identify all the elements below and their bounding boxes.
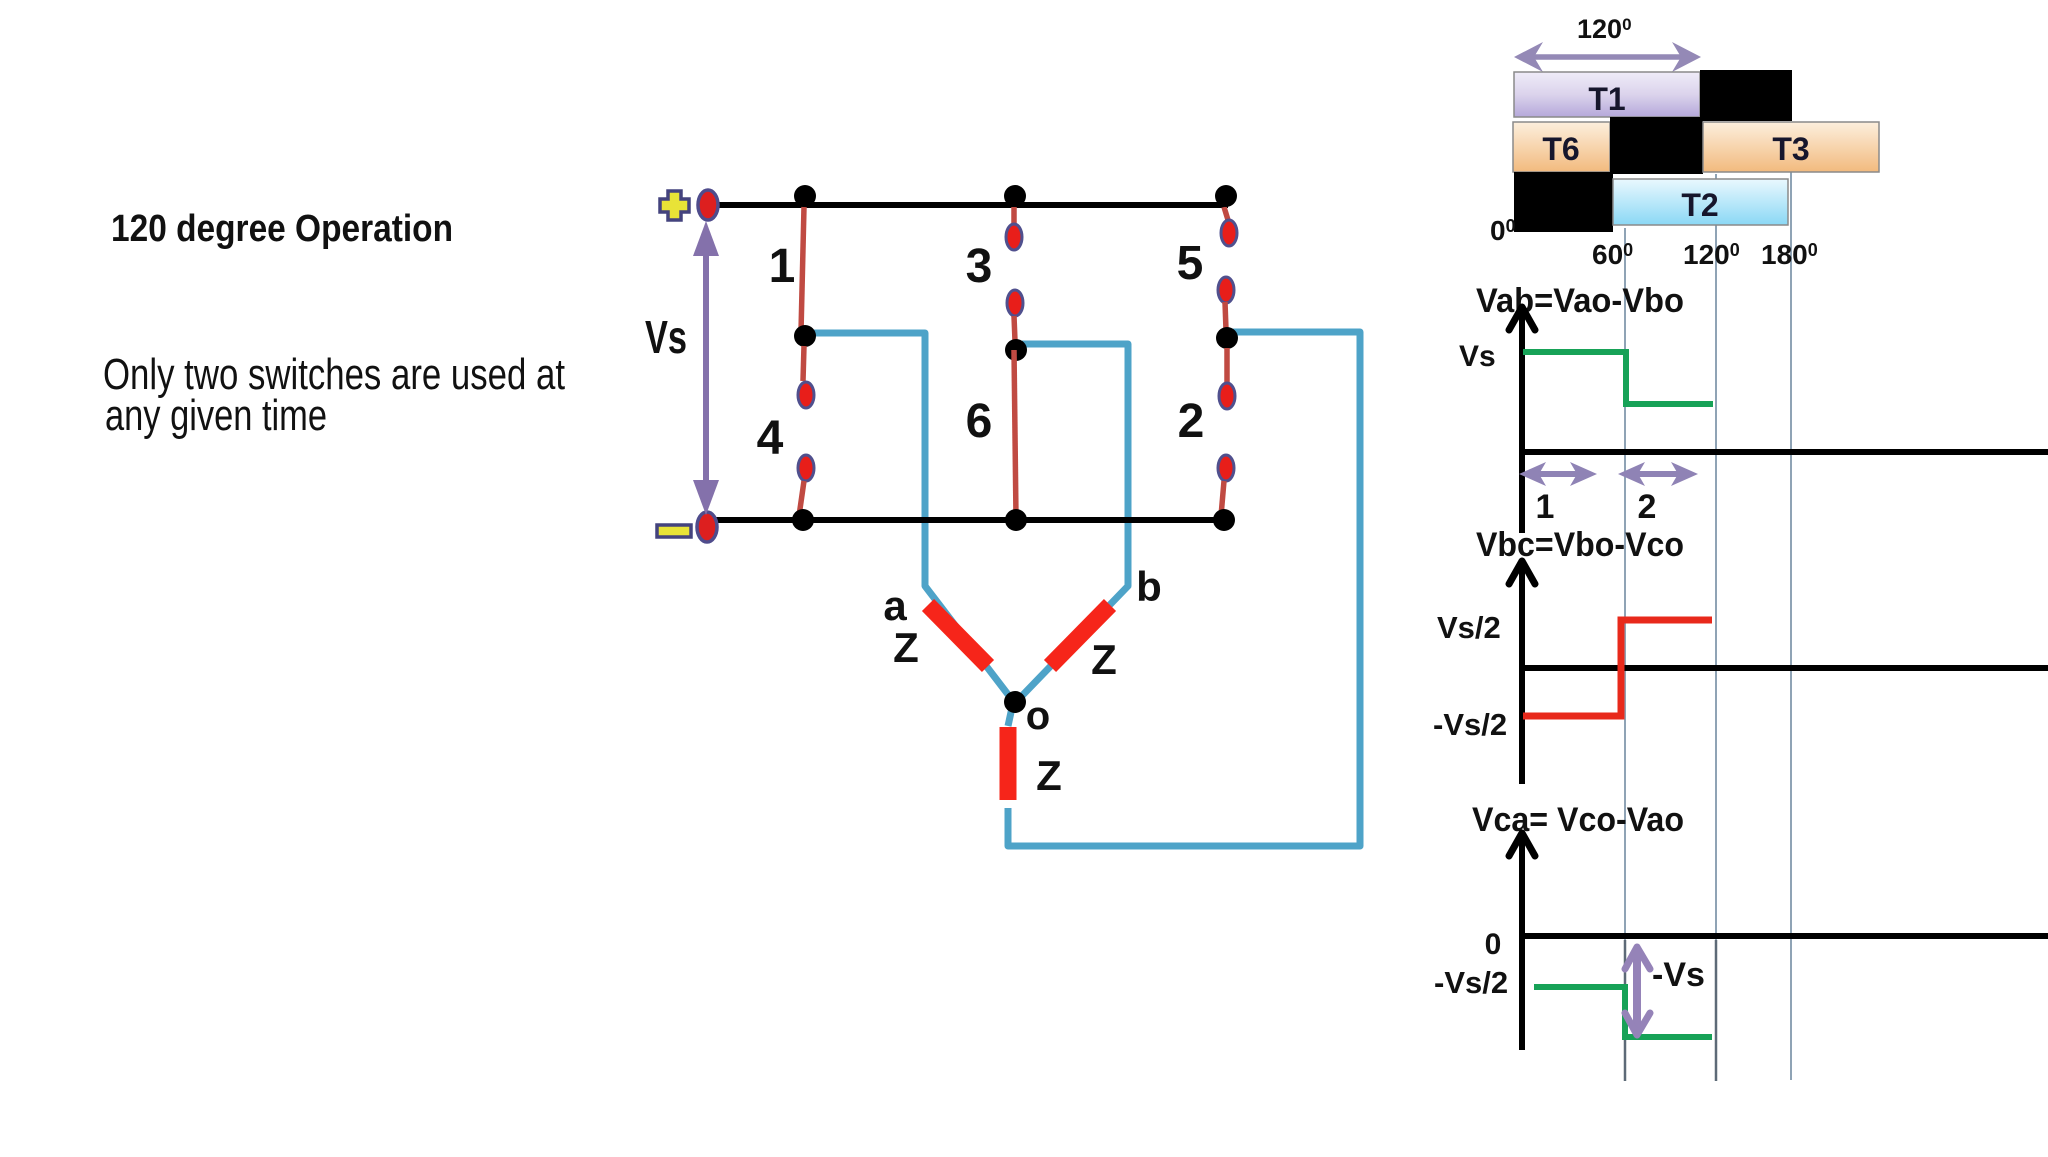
switch S4 stub to bottom bus: [799, 481, 804, 516]
svg-text:-Vs/2: -Vs/2: [1433, 707, 1507, 742]
graph3 y axis: [1509, 833, 1535, 1050]
svg-text:Z: Z: [893, 624, 919, 671]
block T6: [1513, 122, 1610, 172]
node mid leg B: [1005, 339, 1027, 361]
svg-text:Z: Z: [1091, 636, 1117, 683]
switch S2 stub to bottom bus: [1221, 481, 1224, 516]
svg-text:T2: T2: [1681, 187, 1718, 223]
contact oval S2 upper: [1219, 383, 1235, 409]
node bottom bus leg A: [792, 509, 814, 531]
graph1 interval arrow 2: [1618, 462, 1698, 486]
svg-text:3: 3: [966, 240, 993, 293]
wire phase b (blue): [1017, 344, 1128, 701]
svg-text:600: 600: [1592, 239, 1633, 270]
svg-text:-Vs: -Vs: [1652, 956, 1705, 994]
svg-text:Vs: Vs: [645, 311, 687, 363]
graph1 x axis: [1519, 449, 2048, 455]
node bottom bus leg C: [1213, 509, 1235, 531]
svg-text:Vca= Vco-Vao: Vca= Vco-Vao: [1472, 801, 1684, 839]
svg-text:0: 0: [1485, 928, 1502, 961]
gridline at 120deg: [1715, 174, 1717, 1081]
svg-text:1: 1: [769, 240, 796, 293]
120 deg span arrow: [1514, 42, 1701, 72]
black block row3: [1514, 172, 1613, 232]
contact oval S4 upper: [798, 382, 814, 408]
wire phase a (blue): [812, 333, 1013, 701]
svg-text:6: 6: [966, 395, 993, 448]
svg-text:T6: T6: [1542, 131, 1579, 167]
svg-text:1200: 1200: [1683, 239, 1740, 270]
switch S5 stub from top bus: [1224, 207, 1228, 220]
graph1 interval arrow 1: [1519, 462, 1597, 486]
black block row1: [1700, 70, 1792, 121]
wire bottom bus: [710, 517, 1228, 523]
svg-text:5: 5: [1177, 237, 1204, 290]
block T1: [1514, 72, 1700, 117]
switch S6 (closed): [1014, 350, 1016, 518]
graph3 green trace: [1534, 987, 1712, 1037]
svg-text:Vs/2: Vs/2: [1437, 610, 1501, 645]
node top bus leg B: [1004, 185, 1026, 207]
impedance Z phase b: [1050, 605, 1110, 666]
contact oval S5 upper: [1221, 220, 1237, 246]
svg-text:T3: T3: [1772, 131, 1809, 167]
switch S3 stub to mid node: [1014, 316, 1015, 341]
graph3 -Vs arrow: [1625, 947, 1650, 1035]
terminal plus symbol: [660, 191, 689, 220]
graph3 x axis: [1519, 933, 2048, 939]
svg-text:00: 00: [1490, 215, 1516, 246]
node mid leg C: [1216, 327, 1238, 349]
block T3: [1703, 122, 1879, 172]
switch S3 stub from top bus: [1011, 207, 1017, 224]
terminal minus oval: [697, 512, 717, 542]
wire phase c (blue): [1008, 332, 1360, 846]
gridline at 180deg: [1790, 172, 1792, 1080]
svg-text:b: b: [1136, 563, 1162, 610]
contact oval S5 lower: [1218, 277, 1234, 303]
contact oval S3 upper: [1006, 224, 1022, 250]
svg-text:o: o: [1026, 694, 1050, 738]
node mid leg A: [794, 325, 816, 347]
gridline 120deg lower dark segment: [1715, 940, 1718, 1081]
svg-text:Vs: Vs: [1459, 340, 1496, 373]
switch S1 (closed): [801, 207, 804, 332]
svg-text:Z: Z: [1036, 752, 1062, 799]
switch S5 stub to mid node: [1225, 302, 1226, 330]
svg-text:Vab=Vao-Vbo: Vab=Vao-Vbo: [1476, 282, 1684, 320]
svg-text:any given time: any given time: [105, 391, 327, 440]
svg-text:1: 1: [1536, 488, 1555, 526]
svg-text:2: 2: [1638, 488, 1657, 526]
svg-text:2: 2: [1178, 395, 1205, 448]
graph1 y axis: [1509, 307, 1535, 533]
node top bus leg A: [794, 185, 816, 207]
black block row2: [1610, 117, 1703, 174]
svg-text:-Vs/2: -Vs/2: [1434, 965, 1508, 1000]
contact oval S2 lower: [1218, 455, 1234, 481]
terminal plus oval: [698, 190, 718, 220]
Vs double arrow: [693, 221, 719, 515]
switch S4 stub from mid node: [803, 346, 804, 381]
node o dot: [1004, 691, 1026, 713]
node bottom bus leg B: [1005, 509, 1027, 531]
impedance Z phase c: [1000, 727, 1017, 800]
graph1 green trace: [1523, 352, 1713, 404]
impedance Z phase a: [928, 605, 988, 666]
svg-text:Vbc=Vbo-Vco: Vbc=Vbo-Vco: [1476, 526, 1684, 564]
wire top bus: [712, 202, 1228, 208]
svg-text:T1: T1: [1588, 81, 1625, 117]
gridline at 60deg: [1624, 228, 1626, 1081]
wire o to Z stub: [1008, 703, 1013, 726]
contact oval S4 lower: [798, 455, 814, 481]
gridline 60deg lower dark segment: [1624, 940, 1627, 1081]
svg-text:a: a: [883, 582, 907, 629]
svg-text:1800: 1800: [1761, 239, 1818, 270]
graph2 y axis: [1509, 561, 1535, 784]
terminal minus symbol: [657, 525, 691, 537]
node top bus leg C: [1215, 185, 1237, 207]
svg-text:4: 4: [757, 412, 784, 465]
graph2 red trace: [1523, 620, 1712, 716]
contact oval S3 lower: [1007, 290, 1023, 316]
graph2 x axis: [1519, 665, 2048, 671]
svg-text:1200: 1200: [1577, 14, 1632, 44]
switch S2 stub from mid node: [1224, 348, 1230, 383]
block T2: [1613, 179, 1788, 225]
svg-text:120 degree Operation: 120 degree Operation: [111, 208, 453, 250]
